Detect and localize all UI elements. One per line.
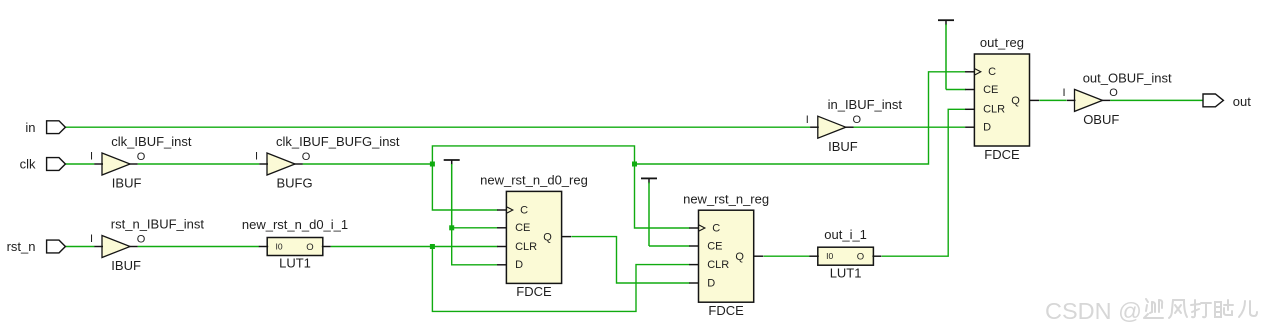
wire VCC1 to CE of new_rst_n_d0_reg [452, 227, 498, 229]
in_IBUF_inst output stub [845, 126, 854, 128]
wire net clk_IBUF_BUFG: BUFG output to junction [303, 163, 433, 165]
wire clk branch to out_reg C [635, 72, 966, 164]
svg-text:O: O [302, 151, 311, 163]
svg-text:IBUF: IBUF [828, 139, 858, 154]
svg-text:I: I [255, 151, 258, 163]
svg-text:D: D [983, 122, 991, 134]
svg-text:O: O [853, 114, 862, 126]
wire net new_rst_n_d0_i_1 output to new_rst_n_d0_reg CLR [331, 246, 498, 248]
new_rst_n_d0_reg clock chevron [506, 207, 512, 214]
input port clk [47, 158, 66, 171]
new_rst_n_reg pin stub Q [753, 255, 763, 257]
input port rst_n [47, 240, 66, 253]
wire junction at (432.4,246.5) [430, 244, 435, 249]
new_rst_n_reg pin stub CE [689, 245, 699, 247]
FDCE new_rst_n_d0_reg body [506, 191, 561, 283]
new_rst_n_reg clock chevron [699, 225, 705, 232]
svg-text:out: out [1233, 94, 1251, 109]
svg-text:D: D [707, 277, 715, 289]
out_i_1 input stub [809, 255, 818, 257]
svg-text:new_rst_n_d0_i_1: new_rst_n_d0_i_1 [242, 217, 348, 232]
wire VCC3 to CE of out_reg [946, 89, 966, 91]
wire from VCC [648, 182, 650, 246]
svg-text:CE: CE [707, 240, 722, 252]
svg-text:I: I [1062, 87, 1065, 99]
svg-text:I: I [90, 233, 93, 245]
new_rst_n_d0_i_1 input stub [259, 246, 268, 248]
buffer out_OBUF_inst (OBUF) symbol [1075, 89, 1103, 111]
wire junction at (432.4,164.0) [430, 162, 435, 167]
svg-text:C: C [520, 204, 528, 216]
svg-text:C: C [712, 222, 720, 234]
svg-text:FDCE: FDCE [516, 284, 552, 299]
wire junction at (634.5,164.0) [632, 162, 637, 167]
buffer rst_n_IBUF_inst (IBUF) symbol [102, 236, 130, 258]
buffer clk_IBUF_BUFG_inst (BUFG) symbol [267, 153, 295, 175]
out_i_1 output stub [872, 255, 881, 257]
out_reg clock chevron [974, 69, 980, 76]
svg-text:new_rst_n_d0_reg: new_rst_n_d0_reg [480, 173, 588, 188]
rst_n_IBUF_inst input stub [94, 246, 103, 248]
svg-text:LUT1: LUT1 [830, 265, 862, 280]
svg-text:I0: I0 [826, 251, 833, 261]
wire VCC1 to D of new_rst_n_d0_reg [452, 228, 498, 265]
svg-text:out_reg: out_reg [980, 35, 1024, 50]
wire net in: port to in_IBUF_inst [65, 126, 810, 128]
new_rst_n_d0_reg pin stub D [497, 264, 507, 266]
FDCE new_rst_n_reg body [699, 210, 754, 302]
svg-text:in: in [25, 120, 35, 135]
out_OBUF_inst input stub [1067, 99, 1076, 101]
new_rst_n_d0_i_1 output stub [322, 246, 331, 248]
new_rst_n_reg pin stub CLR [689, 264, 699, 266]
svg-text:O: O [1109, 87, 1118, 99]
out_OBUF_inst output stub [1102, 99, 1111, 101]
wire net new_rst_n_d0: Q to new_rst_n_reg D [571, 237, 690, 283]
svg-text:rst_n_IBUF_inst: rst_n_IBUF_inst [111, 217, 205, 232]
svg-text:Q: Q [543, 231, 552, 243]
svg-text:BUFG: BUFG [277, 176, 313, 191]
wire net rst_n: port to rst_n_IBUF_inst [65, 246, 94, 248]
svg-text:clk_IBUF_BUFG_inst: clk_IBUF_BUFG_inst [276, 134, 400, 149]
wire net out: OBUF to output port [1110, 99, 1203, 101]
wire from VCC [451, 164, 453, 228]
wire VCC2 to CE of new_rst_n_reg [649, 245, 690, 247]
out_reg pin stub D [965, 126, 975, 128]
output port out [1203, 94, 1223, 107]
svg-text:in_IBUF_inst: in_IBUF_inst [828, 97, 903, 112]
wire net out_i_1 output to out_reg CLR [882, 109, 966, 256]
svg-text:O: O [857, 252, 864, 263]
svg-text:D: D [515, 259, 523, 271]
svg-text:out_OBUF_inst: out_OBUF_inst [1083, 70, 1172, 85]
input port in [47, 121, 66, 134]
svg-text:CLR: CLR [983, 104, 1005, 116]
new_rst_n_reg pin stub D [689, 282, 699, 284]
svg-text:OBUF: OBUF [1083, 112, 1119, 127]
wire clk branch up and over to new_rst_n_reg C [432, 146, 690, 228]
svg-text:O: O [306, 242, 313, 253]
svg-text:new_rst_n_reg: new_rst_n_reg [683, 191, 769, 206]
svg-text:rst_n: rst_n [7, 239, 36, 254]
clk_IBUF_BUFG_inst input stub [259, 163, 268, 165]
clk_IBUF_inst output stub [129, 163, 138, 165]
svg-text:O: O [137, 233, 146, 245]
new_rst_n_d0_reg pin stub CLR [497, 246, 507, 248]
svg-text:I: I [806, 114, 809, 126]
wire clk branch down to new_rst_n_d0_reg C [432, 164, 497, 210]
new_rst_n_d0_reg pin stub Q [561, 236, 571, 238]
svg-text:Q: Q [735, 251, 744, 263]
svg-text:C: C [988, 66, 996, 78]
new_rst_n_reg pin stub C [689, 227, 699, 229]
svg-text:FDCE: FDCE [708, 303, 744, 318]
out_reg pin stub Q [1029, 99, 1039, 101]
svg-text:clk_IBUF_inst: clk_IBUF_inst [111, 134, 192, 149]
wire net out_reg Q to OBUF [1039, 99, 1066, 101]
clk_IBUF_inst input stub [94, 163, 103, 165]
svg-text:LUT1: LUT1 [279, 256, 311, 271]
wire net clk_IBUF: IBUF to BUFG [138, 163, 260, 165]
svg-text:CSDN @: CSDN @ [1045, 298, 1142, 324]
watermark chinese characters [1144, 299, 1257, 318]
new_rst_n_d0_reg pin stub CE [497, 227, 507, 229]
svg-text:CLR: CLR [515, 241, 537, 253]
wire net rst_n_IBUF: IBUF to LUT1 [138, 246, 260, 248]
buffer clk_IBUF_inst (IBUF) symbol [102, 153, 130, 175]
svg-text:FDCE: FDCE [984, 147, 1020, 162]
wire branch to new_rst_n_reg CLR [432, 247, 690, 312]
power VCC const1 symbol at x=946.0 [938, 19, 954, 21]
power VCC const1 symbol at x=649.0 [641, 177, 657, 179]
svg-text:clk: clk [20, 157, 36, 172]
wire from VCC [945, 24, 947, 89]
svg-text:IBUF: IBUF [111, 258, 141, 273]
out_reg pin stub CLR [965, 108, 975, 110]
svg-text:CE: CE [515, 222, 530, 234]
FDCE out_reg body [974, 54, 1029, 146]
LUT1 new_rst_n_d0_i_1 body [267, 238, 323, 256]
rst_n_IBUF_inst output stub [129, 246, 138, 248]
svg-text:out_i_1: out_i_1 [824, 227, 867, 242]
svg-text:I: I [90, 151, 93, 163]
svg-text:I0: I0 [276, 242, 283, 252]
clk_IBUF_BUFG_inst output stub [294, 163, 303, 165]
out_reg pin stub CE [965, 89, 975, 91]
svg-text:IBUF: IBUF [112, 176, 142, 191]
out_reg pin stub C [965, 71, 975, 73]
new_rst_n_d0_reg pin stub C [497, 209, 507, 211]
svg-text:CLR: CLR [707, 259, 729, 271]
wire net clk: port to clk_IBUF_inst [65, 163, 94, 165]
buffer in_IBUF_inst (IBUF) symbol [818, 116, 846, 138]
svg-text:CE: CE [983, 84, 998, 96]
svg-text:Q: Q [1011, 95, 1020, 107]
power VCC const1 symbol at x=451.7 [444, 159, 460, 161]
svg-text:O: O [137, 151, 146, 163]
wire net in_IBUF: IBUF output to out_reg D [853, 126, 965, 128]
wire net new_rst_n: Q to out_i_1 [764, 255, 811, 257]
LUT1 out_i_1 body [818, 247, 874, 265]
wire junction at (451.7,227.8) [449, 225, 454, 230]
in_IBUF_inst input stub [810, 126, 819, 128]
